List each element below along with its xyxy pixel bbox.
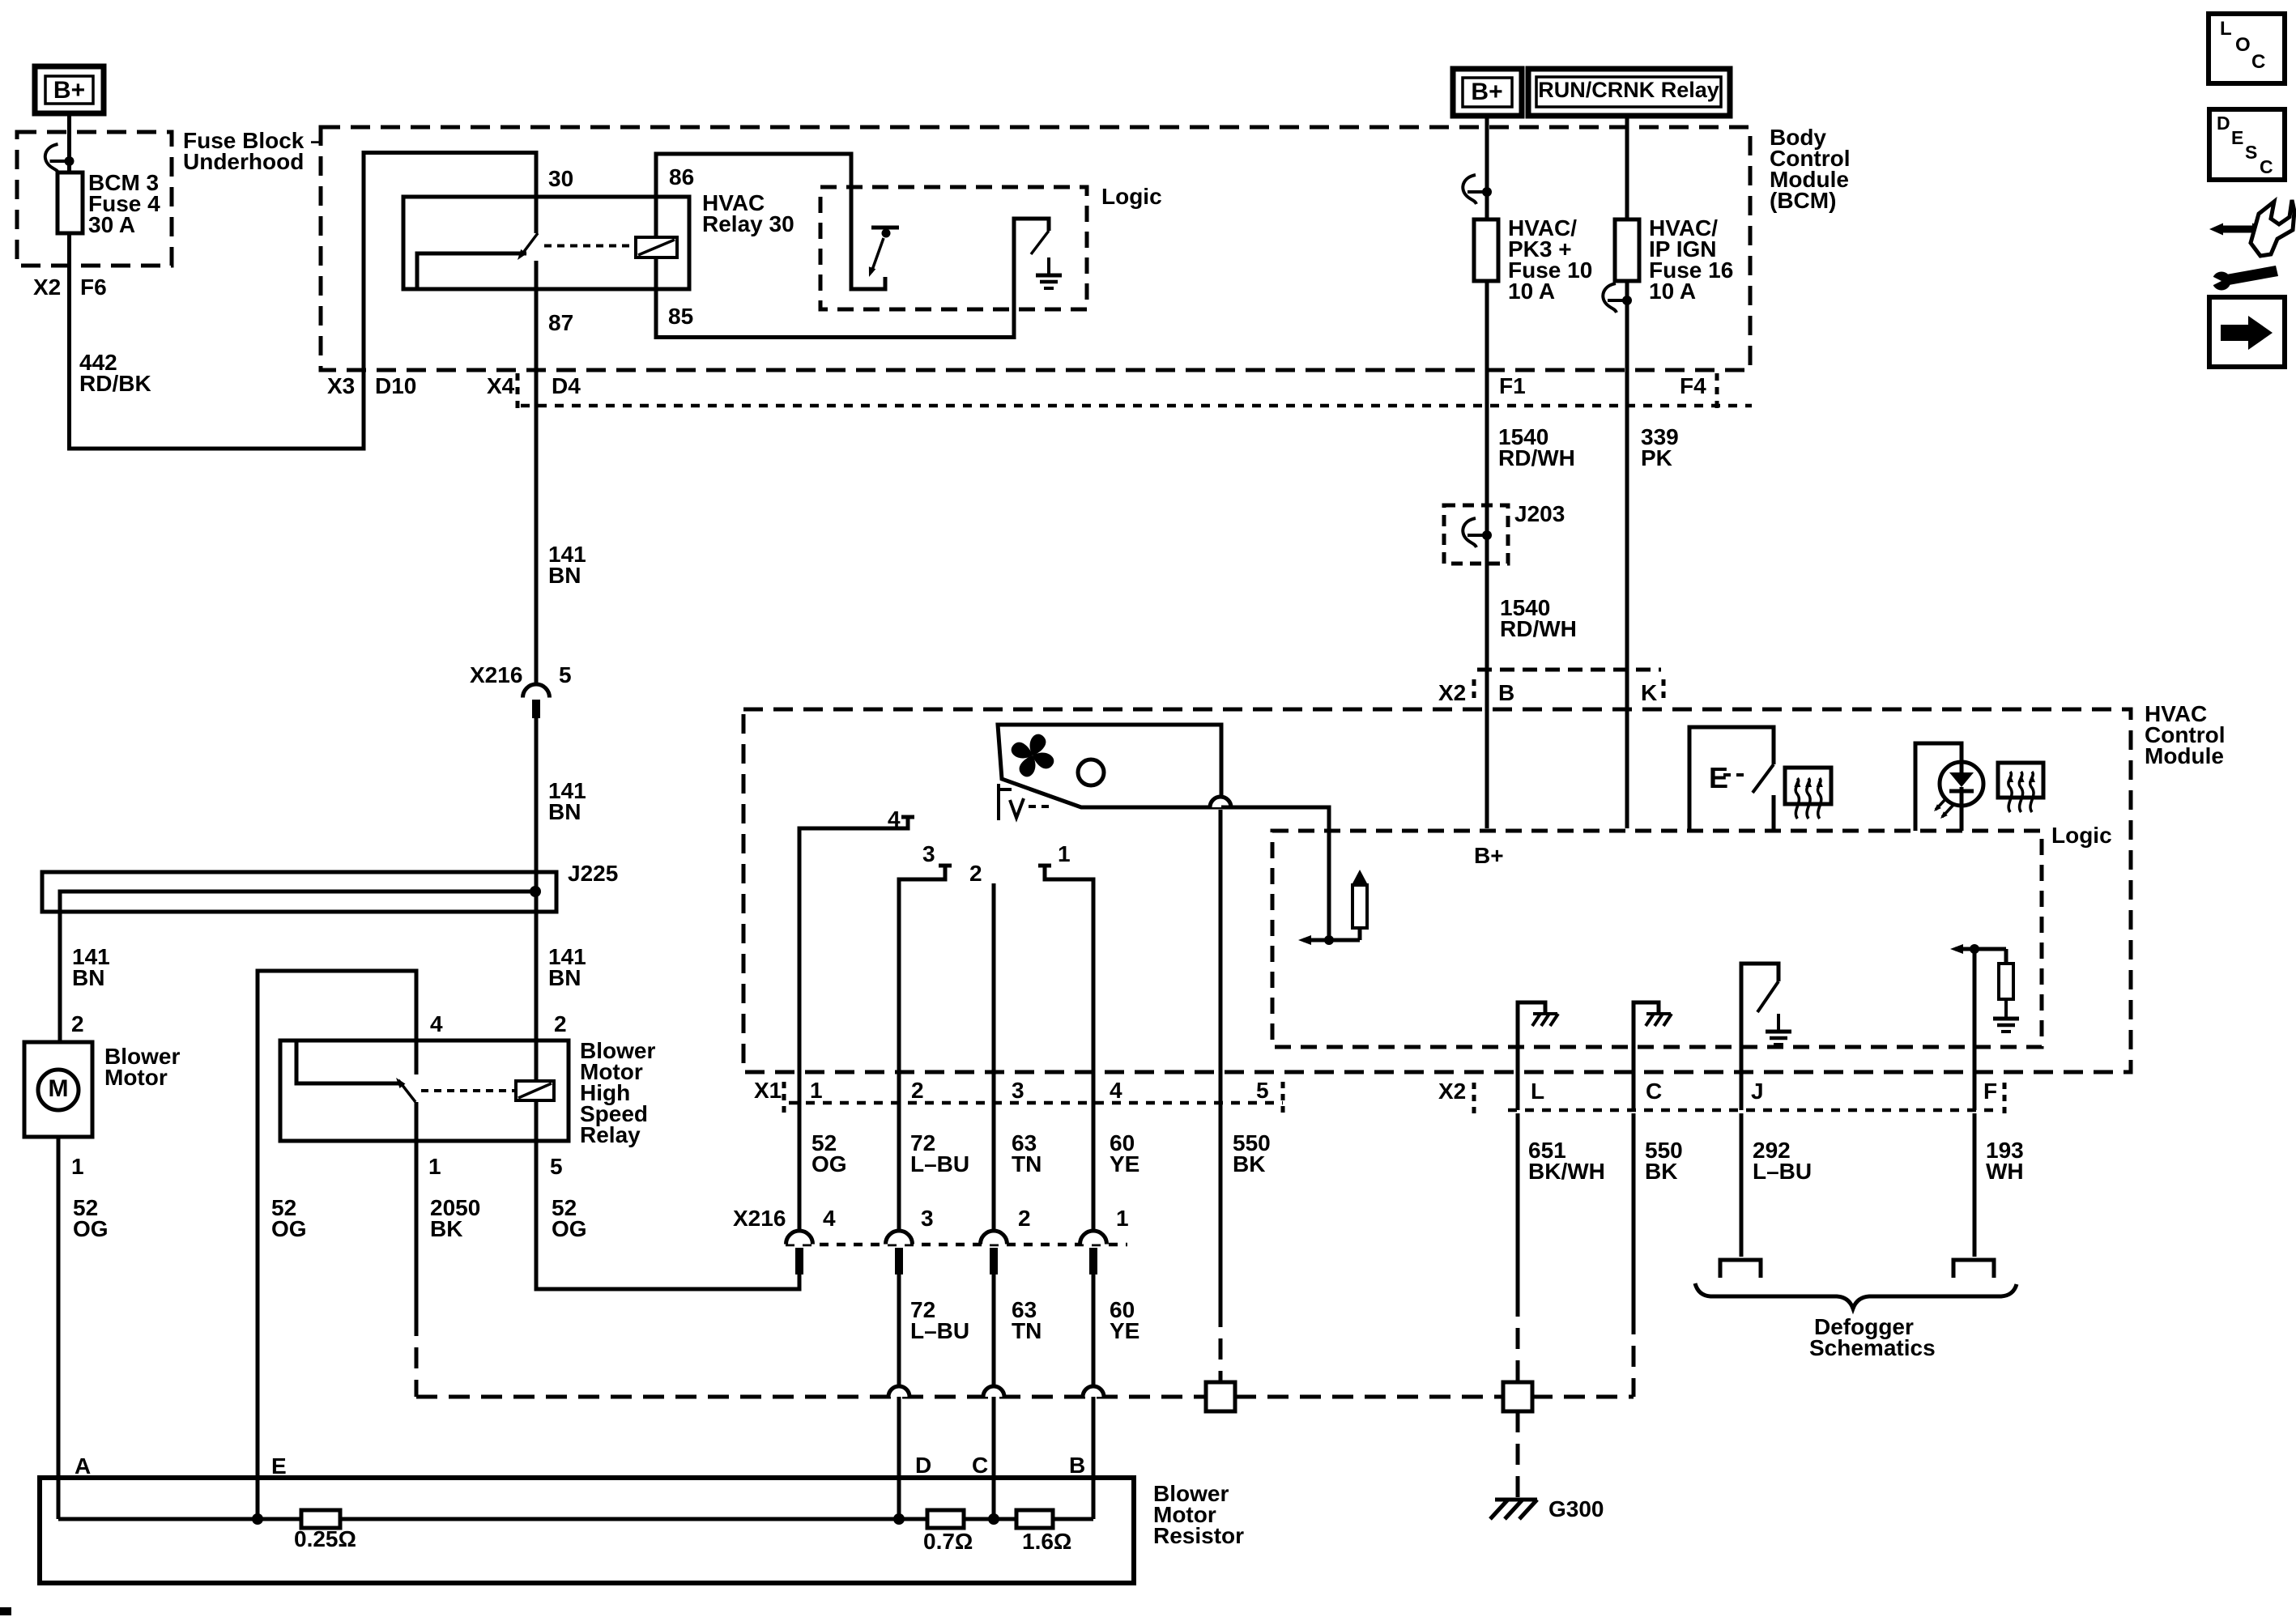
icon box LOC [2209, 14, 2285, 83]
wire 292 L-BU to defogger [1740, 1113, 1744, 1257]
splice block J225 [42, 872, 556, 912]
svg-text:BN: BN [548, 799, 581, 824]
svg-text:BK: BK [1233, 1151, 1265, 1177]
wire 141 BN to J225 [535, 718, 539, 891]
svg-text:30 A: 30 A [88, 212, 135, 237]
svg-text:2: 2 [969, 861, 982, 886]
svg-text:OG: OG [271, 1216, 307, 1241]
svg-text:L–BU: L–BU [1753, 1159, 1812, 1184]
svg-text:X4: X4 [487, 373, 515, 398]
wire 63 TN to resistor C [992, 1274, 996, 1519]
connector row line X1 [789, 1101, 1283, 1105]
splice hook at fuse feed [45, 144, 59, 173]
wire relay 30 pin 85 [656, 219, 1049, 338]
svg-text:2: 2 [554, 1011, 567, 1036]
relay 30 coil [636, 237, 677, 257]
relay 30 fixed contact [417, 253, 526, 289]
svg-text:X2: X2 [1438, 680, 1466, 705]
wire 141 BN right branch [535, 891, 539, 1081]
wire 52 OG pin5 to X216-4 [536, 1141, 799, 1289]
svg-text:3: 3 [921, 1206, 934, 1231]
icon box right arrow [2209, 297, 2285, 367]
high speed relay pin 4 stub [415, 1040, 419, 1074]
LED photon arrows [1936, 798, 1947, 810]
svg-text:L: L [1531, 1079, 1544, 1104]
RUN/CRNK Relay terminal box [1528, 69, 1730, 116]
svg-text:D10: D10 [375, 373, 416, 398]
svg-text:D: D [915, 1453, 931, 1478]
svg-text:X1: X1 [754, 1078, 782, 1103]
svg-text:X2: X2 [1438, 1079, 1466, 1104]
defog indicator LED cathode [1960, 806, 1964, 831]
fuse HVAC/IP IGN Fuse 16 [1615, 219, 1639, 281]
svg-text:2: 2 [1018, 1206, 1031, 1231]
svg-text:86: 86 [669, 164, 694, 189]
heater grid icon 2 [1998, 763, 2043, 798]
defog input ground [1777, 1014, 1780, 1030]
B+ battery terminal box (top right) [1453, 69, 1522, 116]
resistor element 0.25 ohm [301, 1510, 340, 1528]
junction dot C [988, 1513, 999, 1525]
splice hook fuse 10 feed [1463, 175, 1476, 204]
svg-text:WH: WH [1986, 1159, 2024, 1184]
svg-text:B+: B+ [1474, 843, 1504, 868]
rail hop arc w3 [983, 1386, 1004, 1397]
high speed relay coil dashes [421, 1089, 516, 1092]
logic ground switch arm [1031, 231, 1049, 254]
icon box DESC [2209, 109, 2285, 180]
svg-text:0.25Ω: 0.25Ω [294, 1526, 356, 1551]
wire 550 BK C dashed drop [1632, 1313, 1636, 1397]
connector row line X2 bottom [1508, 1108, 2001, 1113]
connector row line X2 B/K [1477, 668, 1661, 672]
relay 30 coil actuation dashes [544, 245, 636, 248]
fuse block underhood dashed box [17, 132, 172, 266]
splice hook fuse 16 output [1603, 283, 1617, 313]
relay 30 switch arm [521, 233, 538, 256]
connector arc switch pin 5 [1210, 797, 1231, 807]
svg-text:C: C [1646, 1079, 1662, 1104]
fuse BCM 3 Fuse 4 30A [58, 172, 83, 233]
svg-text:F4: F4 [1680, 373, 1706, 398]
svg-text:Module: Module [2145, 743, 2224, 768]
connector square S2 on rail [1503, 1382, 1532, 1411]
connector tick X1 [782, 1082, 786, 1113]
wire 651 BK/WH solid [1516, 1113, 1520, 1296]
blower switch wiper glyph [997, 784, 1000, 820]
HVAC logic dashed box [1272, 831, 2042, 1047]
svg-text:K: K [1641, 680, 1657, 705]
svg-text:Logic: Logic [1101, 184, 1162, 209]
svg-text:E: E [271, 1453, 287, 1479]
svg-text:J203: J203 [1514, 501, 1565, 526]
blower motor M symbol [38, 1070, 79, 1110]
junction dot D [893, 1513, 905, 1525]
svg-text:G300: G300 [1548, 1496, 1604, 1521]
svg-text:C: C [972, 1453, 988, 1478]
staple pin 4 switch [799, 817, 908, 1232]
svg-text:10 A: 10 A [1649, 279, 1696, 304]
wire 1540 RD/WH J203 to HVAC module [1485, 535, 1489, 828]
terminal bracket 193 [1953, 1260, 1994, 1278]
svg-text:C: C [2251, 51, 2265, 73]
speed signal arrow [1303, 938, 1360, 943]
svg-text:Logic: Logic [2051, 823, 2112, 848]
X216 pin 1 connector [1080, 1231, 1107, 1245]
wire relay 30 pin 87 down to X216 [535, 261, 539, 684]
X216 pin 4 connector [786, 1231, 813, 1245]
svg-text:10 A: 10 A [1508, 279, 1555, 304]
svg-text:L: L [2220, 18, 2232, 40]
J225 internal bus [60, 891, 535, 912]
svg-text:A: A [75, 1453, 91, 1479]
svg-text:RUN/CRNK Relay: RUN/CRNK Relay [1538, 78, 1719, 102]
defog output ground [2004, 1001, 2008, 1017]
svg-text:O: O [2235, 34, 2251, 56]
defog input J wire [1741, 964, 1778, 1110]
defog switch arm [1753, 764, 1774, 793]
rail hop arc w2 [888, 1386, 909, 1397]
staple pin 1 switch [1045, 866, 1093, 1232]
connector tick after F4 [1715, 373, 1719, 412]
svg-text:X216: X216 [733, 1206, 786, 1231]
connector row dashes X216 [786, 1243, 1127, 1247]
connector tick X2 bottom [1472, 1083, 1476, 1113]
svg-text:RD/WH: RD/WH [1500, 616, 1577, 641]
staple pin 3 switch [899, 866, 945, 1232]
wire RUN/CRNK into BCM [1625, 116, 1629, 219]
wire 550 BK C solid [1632, 1113, 1636, 1313]
wire 2050 BK dashed drop [415, 1315, 419, 1397]
wire blower speed signal [1221, 807, 1329, 940]
J225 junction dot [530, 886, 541, 897]
svg-text:Motor: Motor [104, 1065, 168, 1090]
logic driver node dot [882, 229, 891, 238]
speed signal pull-up resistor [1358, 928, 1362, 940]
svg-text:1: 1 [71, 1154, 84, 1179]
high speed relay fixed contact [296, 1040, 400, 1083]
X216 pin 2 connector [981, 1231, 1007, 1245]
wire 193 WH to defogger [1973, 1113, 1977, 1257]
svg-text:OG: OG [73, 1216, 109, 1241]
svg-text:4: 4 [888, 806, 901, 832]
svg-text:1.6Ω: 1.6Ω [1022, 1529, 1071, 1554]
logic driver supply bar [871, 226, 899, 230]
connector tick after F [2003, 1083, 2007, 1113]
svg-text:J225: J225 [568, 861, 618, 886]
wire 52 OG blower to resistor A [57, 1137, 61, 1519]
defog switch E feed [1689, 727, 1774, 831]
svg-text:TN: TN [1012, 1151, 1042, 1177]
BCM logic dashed box [820, 187, 1087, 309]
terminal bracket 292 [1720, 1260, 1761, 1278]
svg-text:2: 2 [911, 1078, 924, 1103]
svg-text:4: 4 [430, 1011, 443, 1036]
svg-text:Relay 30: Relay 30 [702, 211, 794, 236]
svg-text:87: 87 [548, 310, 573, 335]
svg-text:X3: X3 [327, 373, 355, 398]
fuse HVAC/PK3+ Fuse 10 [1474, 219, 1498, 281]
wire B+ to fuse BCM3/Fuse4 [67, 113, 71, 172]
svg-text:E: E [1709, 761, 1728, 794]
Body Control Module dashed box [321, 127, 1750, 370]
svg-text:OG: OG [552, 1216, 587, 1241]
svg-text:RD/WH: RD/WH [1498, 445, 1575, 470]
svg-text:D: D [2217, 113, 2230, 134]
rail hop arc w4 [1083, 1386, 1104, 1397]
high speed relay switch arm [398, 1080, 415, 1102]
svg-text:1: 1 [810, 1078, 823, 1103]
svg-text:1: 1 [428, 1154, 441, 1179]
svg-text:OG: OG [811, 1151, 847, 1177]
defog output F wire [1973, 949, 1977, 1110]
blower switch knob circle [1078, 760, 1104, 785]
connector square S1 on rail [1206, 1382, 1235, 1411]
svg-text:0.7Ω: 0.7Ω [923, 1529, 973, 1554]
svg-text:2: 2 [71, 1011, 84, 1036]
splice hook J203 [1463, 518, 1476, 547]
svg-text:YE: YE [1110, 1318, 1139, 1343]
svg-text:3: 3 [922, 841, 935, 866]
heater grid icon 1 [1785, 768, 1831, 804]
logic ground symbol [1047, 257, 1050, 274]
svg-text:Schematics: Schematics [1809, 1335, 1936, 1360]
junction dot E [252, 1513, 263, 1525]
wire 141 BN left branch [58, 912, 62, 1042]
svg-text:BN: BN [548, 965, 581, 990]
logic driver switch arm [871, 238, 884, 272]
svg-text:X216: X216 [470, 662, 522, 687]
svg-text:5: 5 [1256, 1078, 1269, 1103]
svg-text:B: B [1498, 680, 1514, 705]
staple wire relay pin4 to resistor E [258, 971, 416, 1519]
svg-text:Relay: Relay [580, 1122, 641, 1147]
svg-text:85: 85 [668, 304, 693, 329]
wire switch pin 2 [992, 883, 996, 1232]
defog input switch arm [1757, 981, 1778, 1012]
blower switch body [998, 725, 1221, 807]
ground pin C [1634, 1002, 1659, 1110]
svg-text:C: C [2260, 156, 2273, 177]
svg-text:PK: PK [1641, 445, 1672, 470]
connector tick after K [1662, 679, 1666, 703]
ground G300 symbol [1495, 1498, 1537, 1502]
resistor element 0.7 ohm [927, 1510, 964, 1528]
svg-text:L–BU: L–BU [910, 1151, 969, 1177]
svg-text:J: J [1751, 1079, 1764, 1104]
svg-text:30: 30 [548, 166, 573, 191]
wire relay pin 5 internal [535, 1100, 539, 1141]
svg-text:4: 4 [823, 1206, 836, 1231]
svg-text:(BCM): (BCM) [1770, 188, 1836, 213]
resistor element 1.6 ohm [1016, 1510, 1053, 1528]
svg-text:B: B [1069, 1453, 1085, 1478]
svg-text:RD/BK: RD/BK [79, 371, 151, 396]
svg-text:1: 1 [1116, 1206, 1129, 1231]
ground rail dashed right [1531, 1395, 1634, 1399]
svg-text:L–BU: L–BU [910, 1318, 969, 1343]
wire fuse16 to F4 down [1625, 281, 1629, 828]
svg-text:F6: F6 [80, 274, 107, 300]
wire fuse10 to F1 [1485, 281, 1489, 535]
connector X216 pin 5 [523, 684, 550, 697]
wire 442 RD/BK fuse to relay 30 [70, 153, 537, 449]
HVAC control module dashed box [743, 709, 2131, 1072]
svg-text:YE: YE [1110, 1151, 1139, 1177]
page corner mark [0, 1607, 11, 1615]
svg-text:F1: F1 [1499, 373, 1526, 398]
defogger schematics brace [1695, 1283, 2017, 1308]
svg-text:5: 5 [559, 662, 572, 687]
blower high speed relay box [280, 1040, 569, 1141]
svg-text:M: M [49, 1075, 69, 1102]
blower motor resistor box [40, 1478, 1134, 1583]
B+ battery terminal box (top left) [35, 66, 104, 113]
svg-text:X2: X2 [33, 274, 61, 300]
svg-text:B+: B+ [1471, 79, 1502, 105]
resistor internal bus [58, 1517, 1093, 1521]
svg-text:BN: BN [548, 563, 581, 588]
svg-text:BN: BN [72, 965, 104, 990]
wire 72 L-BU to resistor D [897, 1274, 901, 1519]
ground rail dashed left [416, 1395, 1206, 1399]
svg-text:BK/WH: BK/WH [1528, 1159, 1605, 1184]
wire 550 BK dashed drop [1219, 1306, 1223, 1382]
svg-text:B+: B+ [53, 77, 85, 104]
defog output resistor [2004, 949, 2008, 964]
svg-text:BK: BK [430, 1216, 462, 1241]
svg-text:4: 4 [1110, 1078, 1122, 1103]
wire 2050 BK solid [415, 1102, 419, 1315]
ground rail dashed mid [1235, 1395, 1502, 1399]
splice J203 dashed box [1444, 505, 1508, 564]
svg-text:D4: D4 [552, 373, 581, 398]
wire 60 YE to resistor B [1092, 1274, 1096, 1519]
svg-text:F: F [1983, 1079, 1997, 1104]
svg-text:E: E [2231, 127, 2243, 148]
svg-text:5: 5 [550, 1154, 563, 1179]
X216 pin 3 connector [886, 1231, 913, 1245]
connector tick X4/D4 [516, 373, 520, 412]
svg-text:3: 3 [1012, 1078, 1024, 1103]
defog output arrow [1955, 947, 2006, 951]
blower switch fan icon [1024, 731, 1050, 757]
svg-text:Underhood: Underhood [183, 149, 304, 174]
connector tick X2/B [1472, 679, 1476, 703]
defog indicator LED feed [1915, 743, 1962, 831]
blower motor box [24, 1042, 92, 1137]
relay 30 coil wire pin 86 loop [656, 154, 885, 289]
icon wrench with arrows [2221, 226, 2256, 233]
high speed relay coil [516, 1081, 554, 1100]
wire B+ into BCM [1485, 116, 1489, 219]
relay 30 shell rectangle [403, 197, 689, 289]
connector tick after X1-5 [1281, 1082, 1285, 1113]
svg-text:TN: TN [1012, 1318, 1042, 1343]
ground pin L [1518, 1002, 1545, 1110]
svg-text:BK: BK [1645, 1159, 1677, 1184]
defog switch stub [1772, 795, 1776, 831]
connector row line X4/D4 [521, 404, 1752, 408]
svg-text:S: S [2245, 142, 2257, 163]
wire 651 BK/WH dashed drop [1516, 1296, 1520, 1382]
svg-text:1: 1 [1058, 841, 1071, 866]
wire S2 to G300 dashed [1516, 1411, 1520, 1497]
svg-text:Resistor: Resistor [1153, 1523, 1244, 1548]
E dashes [1723, 773, 1749, 777]
wire 550 BK switch to X1-5 [1219, 810, 1223, 1306]
defog indicator LED [1940, 762, 1983, 806]
